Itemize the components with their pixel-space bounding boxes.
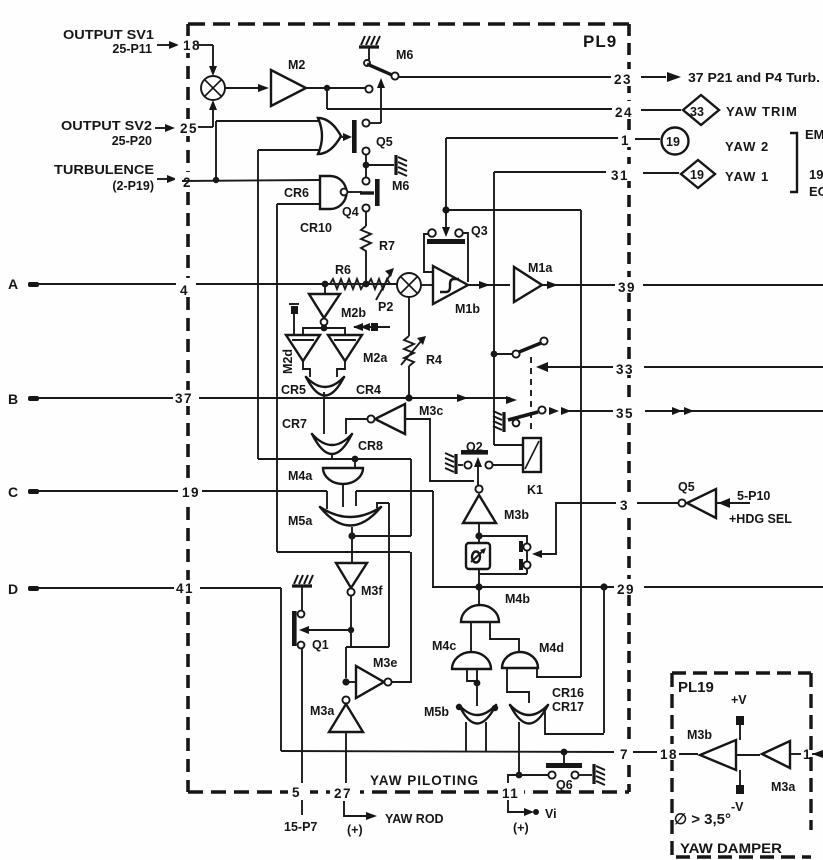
svg-text:3: 3 [620, 498, 629, 513]
svg-text:OUTPUT SV2: OUTPUT SV2 [61, 119, 152, 133]
svg-text:R7: R7 [379, 239, 395, 253]
svg-text:25-P20: 25-P20 [112, 134, 152, 148]
svg-text:C: C [8, 484, 18, 500]
svg-text:R4: R4 [426, 353, 442, 367]
svg-text:M6: M6 [392, 179, 409, 193]
svg-text:M3a: M3a [310, 704, 335, 718]
svg-text:15-P7: 15-P7 [284, 820, 317, 834]
svg-text:M1a: M1a [528, 261, 553, 275]
svg-text:M3f: M3f [361, 584, 383, 598]
svg-text:-V: -V [731, 800, 744, 814]
svg-text:M4b: M4b [505, 592, 530, 606]
svg-text:CR10: CR10 [300, 221, 332, 235]
svg-text:M1b: M1b [455, 302, 480, 316]
svg-text:OUTPUT SV1: OUTPUT SV1 [63, 28, 154, 42]
svg-text:Vi: Vi [545, 807, 557, 821]
svg-text:11: 11 [502, 786, 519, 801]
svg-text:PL19: PL19 [678, 679, 714, 696]
svg-text:B: B [8, 391, 18, 407]
svg-text:YAW DAMPER: YAW DAMPER [680, 841, 782, 856]
svg-text:Q6: Q6 [556, 778, 573, 792]
svg-text:Q3: Q3 [471, 224, 488, 238]
svg-text:33: 33 [690, 105, 704, 119]
svg-text:M5b: M5b [424, 705, 449, 719]
svg-text:M3b: M3b [504, 508, 529, 522]
svg-text:YAW 1: YAW 1 [725, 169, 769, 184]
svg-text:CR5: CR5 [281, 383, 306, 397]
svg-text:(2-P19): (2-P19) [112, 179, 154, 193]
svg-text:23: 23 [614, 72, 632, 87]
svg-text:CR16: CR16 [552, 686, 584, 700]
svg-text:YAW 2: YAW 2 [725, 139, 769, 154]
svg-text:25-P11: 25-P11 [112, 42, 152, 56]
svg-text:YAW PILOTING: YAW PILOTING [370, 773, 479, 788]
svg-text:Q4: Q4 [342, 205, 359, 219]
svg-text:37 P21 and P4 Turb.: 37 P21 and P4 Turb. [688, 70, 820, 85]
svg-text:A: A [8, 276, 18, 292]
svg-text:M2: M2 [288, 58, 305, 72]
svg-text:4: 4 [180, 283, 189, 298]
svg-text:TURBULENCE: TURBULENCE [54, 163, 154, 177]
svg-text:7: 7 [620, 747, 629, 762]
svg-text:31: 31 [611, 168, 629, 183]
svg-text:CR17: CR17 [552, 700, 584, 714]
svg-text:M4c: M4c [432, 639, 456, 653]
svg-text:18: 18 [660, 747, 678, 762]
svg-text:∅ > 3,5°: ∅ > 3,5° [674, 811, 731, 828]
svg-text:37: 37 [175, 391, 193, 406]
svg-text:41: 41 [176, 581, 194, 596]
svg-text:Q5: Q5 [678, 480, 695, 494]
svg-text:R6: R6 [335, 263, 351, 277]
svg-text:27: 27 [334, 786, 352, 801]
svg-text:CR8: CR8 [358, 439, 383, 453]
svg-text:33: 33 [616, 362, 634, 377]
svg-text:M4a: M4a [288, 469, 313, 483]
svg-text:2: 2 [183, 175, 192, 190]
svg-text:24: 24 [615, 105, 633, 120]
svg-text:1: 1 [621, 133, 630, 148]
svg-text:D: D [8, 581, 18, 597]
svg-text:Q5: Q5 [376, 135, 393, 149]
svg-text:5: 5 [292, 785, 301, 800]
svg-text:CR4: CR4 [356, 383, 381, 397]
svg-text:M3a: M3a [771, 780, 796, 794]
svg-text:5-P10: 5-P10 [737, 489, 770, 503]
svg-text:CR6: CR6 [284, 186, 309, 200]
svg-text:35: 35 [616, 406, 634, 421]
svg-text:EC: EC [809, 184, 823, 199]
svg-text:39: 39 [618, 280, 636, 295]
svg-text:PL9: PL9 [583, 32, 617, 51]
svg-text:M3c: M3c [419, 404, 443, 418]
svg-text:M2d: M2d [281, 349, 295, 374]
svg-text:(+): (+) [513, 821, 529, 835]
svg-text:+HDG SEL: +HDG SEL [729, 512, 792, 526]
svg-text:CR7: CR7 [282, 417, 307, 431]
svg-text:19: 19 [809, 167, 823, 182]
svg-text:YAW TRIM: YAW TRIM [726, 104, 798, 119]
svg-text:P2: P2 [378, 300, 393, 314]
svg-text:M3b: M3b [687, 728, 712, 742]
svg-text:19: 19 [666, 135, 680, 149]
svg-text:M5a: M5a [288, 514, 313, 528]
svg-text:(+): (+) [347, 823, 363, 837]
svg-text:19: 19 [690, 168, 704, 182]
svg-text:M2a: M2a [363, 351, 388, 365]
svg-text:+V: +V [731, 693, 747, 707]
svg-text:M4d: M4d [539, 641, 564, 655]
svg-text:K1: K1 [527, 483, 543, 497]
svg-text:M6: M6 [396, 48, 413, 62]
svg-text:19: 19 [182, 485, 200, 500]
svg-text:25: 25 [180, 121, 198, 136]
svg-text:Q1: Q1 [312, 638, 329, 652]
svg-text:29: 29 [617, 582, 635, 597]
svg-text:M3e: M3e [373, 656, 397, 670]
svg-text:YAW ROD: YAW ROD [385, 812, 444, 826]
svg-text:1: 1 [803, 747, 812, 762]
svg-text:EM: EM [805, 127, 823, 142]
svg-text:M2b: M2b [341, 306, 366, 320]
